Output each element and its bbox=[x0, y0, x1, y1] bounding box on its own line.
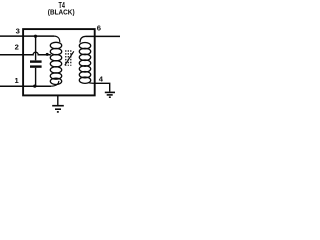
svg-text:6: 6 bbox=[97, 24, 101, 33]
pin 1 wire bbox=[0, 85, 51, 87]
svg-text:4: 4 bbox=[99, 75, 104, 84]
secondary winding bbox=[79, 43, 90, 84]
primary winding bbox=[50, 42, 61, 84]
wire: secondary top lead bbox=[80, 36, 86, 42]
wire: primary top lead bbox=[54, 36, 60, 42]
shield box bbox=[23, 29, 95, 95]
node on pin 3 wire bbox=[34, 35, 37, 38]
capacitor bottom lead bbox=[35, 68, 37, 86]
svg-text:1: 1 bbox=[14, 76, 19, 85]
node on pin 1 wire bbox=[33, 84, 36, 87]
capacitor top lead bbox=[35, 36, 37, 60]
svg-text:3: 3 bbox=[16, 27, 20, 36]
pin 3 wire bbox=[0, 35, 54, 37]
pin 6 wire bbox=[86, 35, 121, 37]
svg-text:2: 2 bbox=[15, 43, 19, 52]
ground G2 bbox=[105, 92, 115, 97]
node on pin 2 tap bbox=[46, 53, 49, 56]
adjustable core bbox=[65, 50, 74, 66]
wire: primary bottom lead bbox=[51, 81, 59, 86]
capacitor plates bbox=[30, 60, 42, 62]
pin 2 wire with hop over capacitor lead bbox=[0, 52, 51, 55]
wire: secondary bottom lead bbox=[88, 82, 95, 85]
ground G1 stem bbox=[57, 96, 59, 105]
svg-text:(BLACK): (BLACK) bbox=[48, 7, 75, 16]
pin 4 wire bbox=[95, 83, 110, 91]
ground G1 bars bbox=[52, 106, 64, 112]
